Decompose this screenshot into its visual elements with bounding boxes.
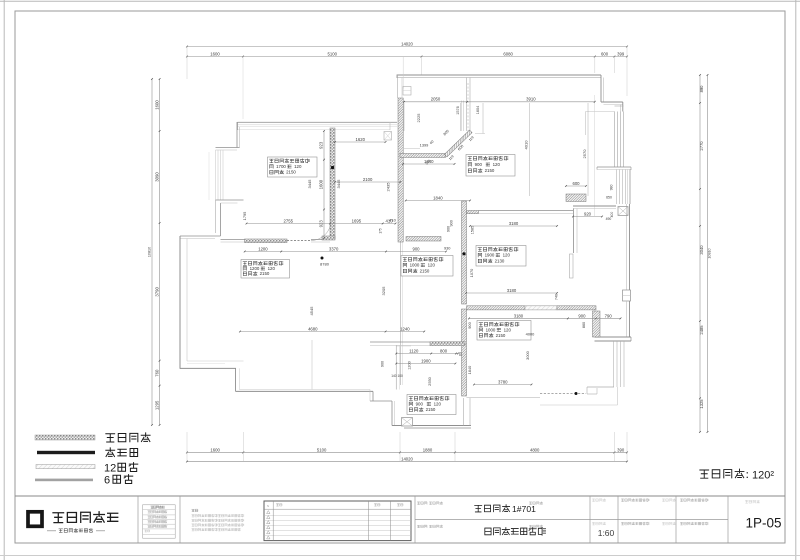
svg-text:14020: 14020: [401, 41, 413, 46]
svg-text:1399: 1399: [420, 143, 429, 148]
svg-text:900: 900: [416, 401, 424, 406]
bedroom2 dims: [470, 225, 557, 227]
kitchen flue box with X: [618, 207, 628, 216]
svg-text:2150: 2150: [496, 333, 506, 338]
entry south hatched wall: [400, 154, 446, 158]
svg-text:1640: 1640: [424, 159, 434, 164]
svg-text:2550: 2550: [427, 376, 432, 385]
light partition x401 living/dining: [400, 242, 402, 385]
svg-text:1295: 1295: [154, 400, 159, 410]
svg-text:1#701: 1#701: [512, 504, 536, 514]
svg-text:3445: 3445: [307, 179, 312, 189]
svg-text:120²: 120²: [752, 470, 774, 482]
center-left dims: [245, 251, 446, 253]
svg-text:3445: 3445: [336, 179, 341, 189]
interior thin wall x312: [311, 340, 313, 390]
svg-text:1840: 1840: [433, 195, 443, 200]
label box TB1 (1700x120): [268, 157, 318, 177]
svg-text:980: 980: [610, 185, 614, 191]
svg-text:923: 923: [319, 141, 324, 149]
dim 2755/410 row y206: [247, 223, 396, 225]
beam dash over bedroom1 door: [467, 83, 469, 131]
svg-text:5100: 5100: [328, 51, 338, 56]
svg-text:14020: 14020: [401, 456, 413, 461]
bay window glazing left: [208, 152, 210, 200]
label box TB0 (left-center): [241, 260, 290, 279]
area note 套内面积 120: [700, 470, 709, 478]
svg-text:900: 900: [475, 162, 483, 167]
svg-text:1840: 1840: [467, 365, 472, 374]
svg-text:5100: 5100: [317, 447, 327, 452]
svg-text:1200: 1200: [408, 361, 412, 369]
terrace window bottom-right: [613, 341, 615, 387]
svg-text:760: 760: [154, 369, 159, 377]
svg-text:2150: 2150: [485, 168, 495, 173]
svg-text:3205: 3205: [381, 286, 386, 296]
wall below bay: [215, 200, 217, 233]
svg-text:2150: 2150: [286, 170, 296, 175]
svg-text:3910: 3910: [526, 97, 536, 102]
kitchen top dims: [573, 216, 602, 218]
revision table: [264, 501, 411, 541]
revision triangles: [267, 511, 270, 514]
svg-text:900: 900: [381, 361, 385, 367]
dim line y200 entry-south: [406, 200, 470, 202]
title block vertical dividers: [137, 496, 139, 543]
wall top exterior (x400-601 y75): [397, 74, 601, 76]
bottom room east jambs: [463, 398, 465, 426]
svg-text:1604: 1604: [476, 106, 480, 114]
svg-text:1240: 1240: [400, 326, 410, 331]
svg-text:1P-05: 1P-05: [745, 516, 781, 531]
svg-text:120: 120: [294, 164, 302, 169]
svg-text:860: 860: [582, 322, 586, 328]
svg-text:4545: 4545: [309, 306, 314, 316]
svg-text:2050: 2050: [431, 97, 441, 102]
svg-text:8780: 8780: [320, 262, 330, 267]
legend row2 original wall swatch: [37, 451, 95, 454]
svg-text:800: 800: [443, 129, 450, 136]
svg-text:790: 790: [605, 313, 613, 318]
lower-left room west wall: [179, 236, 181, 369]
kitchen door leaf: [570, 254, 574, 278]
wall top-right step: [600, 75, 602, 102]
svg-text:3790: 3790: [154, 286, 159, 296]
label box TB2 (900x120): [466, 155, 515, 177]
logo square: [28, 512, 42, 527]
svg-text:119: 119: [468, 135, 475, 142]
svg-text:1200: 1200: [258, 246, 268, 251]
dim chain bottom segments: [187, 451, 627, 453]
svg-text:1600: 1600: [319, 179, 324, 189]
svg-text:119: 119: [448, 154, 455, 161]
dim chain top segments: [187, 56, 627, 58]
dim 2100: [335, 181, 400, 183]
dim 1620: [335, 141, 386, 143]
svg-text:3000: 3000: [525, 350, 530, 359]
prefab beam dashed line + dot: [540, 393, 586, 395]
bottom wall y391: [236, 390, 374, 392]
svg-text:10810: 10810: [707, 248, 711, 258]
bedroom1 south wall: [467, 211, 479, 214]
svg-text:600: 600: [572, 181, 580, 186]
dim chain bottom total 14020: [187, 461, 627, 463]
svg-text:1:60: 1:60: [598, 528, 615, 538]
label box TB5 (1000x120): [477, 321, 531, 341]
svg-text:900: 900: [467, 321, 472, 328]
svg-text:800: 800: [440, 348, 448, 353]
svg-text:1000: 1000: [410, 263, 420, 268]
svg-text:60: 60: [429, 139, 435, 145]
legend row4 6fen swatch: [35, 479, 93, 482]
svg-text:3090: 3090: [154, 172, 159, 182]
svg-text:1700: 1700: [276, 164, 286, 169]
small table (sheet info): [143, 505, 176, 538]
legend text 原始墙: [106, 448, 115, 457]
drawing name 新建墙体定位图: [485, 528, 491, 535]
west wall of bottom-center room: [395, 345, 397, 389]
bay window sill: [216, 199, 244, 201]
step down x235.5: [235, 368, 237, 391]
svg-text:2225: 2225: [416, 113, 421, 123]
svg-text:1620: 1620: [356, 137, 366, 142]
svg-text:1325: 1325: [699, 399, 704, 409]
svg-text:1600: 1600: [210, 51, 220, 56]
dim total right 10810: [707, 75, 709, 432]
dim chain top total 14020: [187, 46, 627, 48]
bottom-left ledge: [180, 367, 236, 369]
hatched wall y305.8 bedroom2 south: [467, 306, 526, 310]
title block top line: [15, 495, 785, 497]
door X box on south wall: [402, 418, 413, 427]
svg-text:120: 120: [434, 401, 442, 406]
vertical stipple wall x330 (12fen): [330, 128, 335, 239]
svg-text:2100: 2100: [363, 177, 373, 182]
svg-text:390: 390: [617, 447, 625, 452]
legend text 预制门梁: [106, 434, 115, 442]
interior dim row y101 (2050/3910): [404, 101, 595, 103]
svg-text:3180: 3180: [509, 221, 519, 226]
svg-text:120: 120: [504, 327, 512, 332]
svg-text:1600: 1600: [210, 447, 220, 452]
window right upper (master): [614, 112, 616, 168]
X box left of entry wall: [384, 132, 392, 141]
svg-text:410: 410: [386, 218, 394, 223]
svg-text:3180: 3180: [514, 313, 524, 318]
window right second: [616, 170, 618, 205]
outer border frame: [0, 0, 800, 2]
bedroom1 inner partition lines: [586, 111, 615, 113]
wall hatched kitchen bottom-left vertical: [593, 311, 601, 337]
svg-text:3040: 3040: [699, 245, 704, 255]
svg-text:4000: 4000: [526, 332, 535, 337]
dim chain left: [159, 79, 161, 425]
shaft box top: [403, 87, 411, 96]
svg-text:120: 120: [493, 162, 501, 167]
dim total left 10810: [151, 79, 153, 425]
label box TB6 (900x120): [407, 395, 456, 415]
wall line y397.5 east of hatched wall: [467, 397, 541, 399]
svg-text:120: 120: [428, 263, 436, 268]
svg-text:2150: 2150: [420, 268, 430, 273]
svg-text:1200: 1200: [250, 266, 260, 271]
svg-text:1900: 1900: [421, 358, 431, 363]
left room vertical chain 923/1600/923: [323, 131, 325, 238]
bottom room south wall: [392, 425, 471, 427]
svg-text:6: 6: [104, 474, 110, 486]
legend row1 prefab beam swatch: [35, 435, 95, 440]
notes block tiny text: [192, 509, 195, 511]
svg-text:600: 600: [601, 51, 609, 56]
svg-text:3180: 3180: [507, 288, 517, 293]
hatched stub at wall bottom: [322, 236, 335, 240]
project cell: [417, 502, 420, 504]
svg-text:6080: 6080: [503, 51, 513, 56]
svg-text:920: 920: [584, 211, 592, 216]
kitchen right wall upper: [626, 204, 628, 290]
svg-text:4680: 4680: [308, 326, 318, 331]
svg-text:900: 900: [578, 313, 586, 318]
wall seg y237 x406-441: [406, 237, 441, 242]
svg-text:1795: 1795: [242, 212, 247, 221]
svg-text:2485: 2485: [699, 325, 704, 335]
left room west wall upper: [236, 122, 238, 148]
svg-text:1585: 1585: [471, 226, 475, 234]
diagonal hatched wall: [444, 130, 472, 157]
bay window top: [216, 147, 240, 149]
svg-text:650: 650: [606, 196, 612, 200]
svg-text:1576: 1576: [456, 106, 460, 114]
svg-text:1880: 1880: [423, 447, 433, 452]
project name 江山豪庭1#701: [475, 505, 482, 512]
terrace bottom lines: [587, 386, 614, 388]
dwg no cell: [745, 500, 748, 503]
svg-text:399: 399: [617, 51, 625, 56]
svg-text:1120: 1120: [409, 348, 419, 353]
svg-text:120: 120: [503, 253, 511, 258]
kitchen right wall lower: [626, 301, 628, 337]
wall y341 south of bedroom2: [370, 341, 430, 343]
svg-text:1070: 1070: [469, 268, 474, 277]
svg-text:60: 60: [459, 352, 463, 356]
svg-text:490: 490: [606, 217, 612, 221]
dim 2050 verticals: [403, 103, 405, 131]
legend row3 12fen swatch: [36, 465, 95, 469]
svg-text:1600: 1600: [154, 100, 159, 110]
svg-text:1000: 1000: [486, 327, 496, 332]
kitchen bottom wall: [595, 336, 632, 338]
svg-text:10810: 10810: [148, 247, 152, 257]
step to lower-left room: [180, 235, 221, 237]
drawing cell divider: [415, 519, 728, 521]
svg-text:N: N: [267, 504, 269, 508]
hatched block above kitchen corner: [566, 194, 586, 202]
svg-text:2130: 2130: [495, 258, 505, 263]
bedroom1 west wall jambs upper: [466, 78, 468, 132]
label box TB4 (1900x120): [476, 246, 526, 267]
svg-text:3780: 3780: [498, 379, 508, 384]
svg-text:900: 900: [412, 246, 420, 251]
window sill y167: [597, 166, 631, 168]
svg-text:1900: 1900: [485, 253, 495, 258]
svg-text:890: 890: [699, 85, 704, 93]
svg-text:740: 740: [555, 294, 559, 300]
label box TB3 (center 1000x120): [401, 256, 453, 277]
entry west wall hatched: [398, 98, 403, 242]
svg-text:12: 12: [104, 462, 116, 474]
door swing arc left room: [311, 221, 331, 241]
svg-text:900: 900: [449, 219, 454, 226]
dim chain right: [699, 75, 701, 432]
svg-text:2570: 2570: [582, 149, 587, 159]
date/scale cell: [592, 499, 595, 501]
svg-text:930: 930: [444, 246, 451, 251]
kitchen left wall: [573, 209, 575, 254]
logo tagline: [47, 530, 56, 532]
svg-text:4800: 4800: [530, 447, 540, 452]
svg-text:1695: 1695: [352, 218, 362, 223]
kitchen window box: [623, 290, 631, 301]
design cells tiny: [621, 499, 624, 501]
south stipple wall of left room: [221, 239, 245, 241]
svg-text:3370: 3370: [329, 246, 339, 251]
svg-text:140 100: 140 100: [391, 374, 403, 378]
svg-text:2770: 2770: [699, 141, 704, 151]
svg-text:4010: 4010: [524, 140, 529, 150]
svg-text:2150: 2150: [260, 271, 270, 276]
svg-text:2150: 2150: [426, 407, 436, 412]
center vertical hatched wall x461.5: [462, 201, 467, 304]
svg-text:175: 175: [379, 228, 383, 234]
step down x373: [372, 391, 374, 401]
logo wordmark 生活家装饰: [53, 513, 64, 523]
left room top window band: [238, 121, 398, 123]
kitchen top wall: [573, 205, 616, 207]
svg-text:2755: 2755: [284, 218, 294, 223]
svg-text:2435: 2435: [386, 182, 391, 192]
